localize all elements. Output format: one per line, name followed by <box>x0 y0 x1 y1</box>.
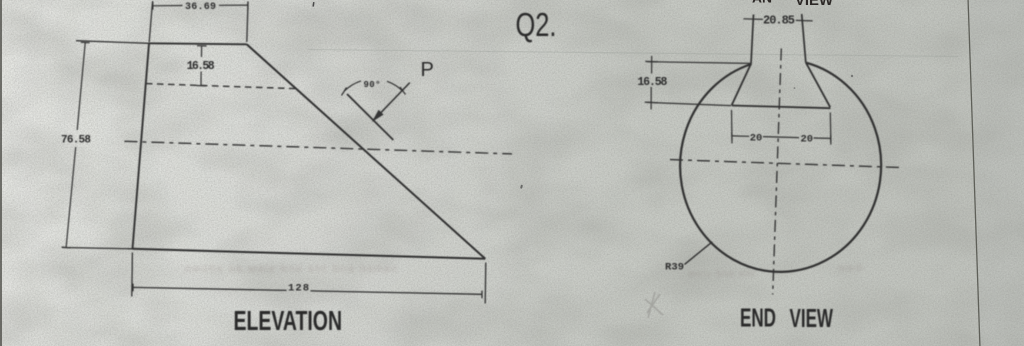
dimension 20-20 ticks <box>732 132 831 142</box>
svg-text:76.58: 76.58 <box>61 135 91 147</box>
extension down left for 128 <box>131 253 134 297</box>
90 degree arc right segment <box>387 81 403 91</box>
dimension 16.58 elevation line <box>200 47 203 86</box>
elevation left edge <box>133 44 150 249</box>
dimension 36.69 line <box>153 4 248 7</box>
dimension 16.58 end view ticks <box>645 61 659 102</box>
svg-text:90°: 90° <box>364 80 381 90</box>
end view horizontal centre line <box>670 160 903 168</box>
top edge extension left <box>76 41 149 44</box>
notch right slant <box>806 62 830 107</box>
svg-text:P: P <box>421 59 434 81</box>
faint ink bleed-through band under end view <box>687 263 864 280</box>
faint paper crease <box>308 50 958 57</box>
dimension 16.58 end view line <box>650 56 653 110</box>
dimension 20-20 line <box>732 136 831 139</box>
elevation slant edge <box>247 44 486 258</box>
P leader line <box>380 83 410 114</box>
end view vertical centre line <box>773 49 782 295</box>
notch left slant <box>732 64 751 106</box>
svg-text:weiv bne eht: weiv bne eht <box>687 269 756 280</box>
svg-text:VIEW: VIEW <box>795 0 834 9</box>
elevation bottom edge <box>133 249 486 259</box>
R39 leader <box>685 242 713 265</box>
dashed line (top plane) <box>146 84 295 89</box>
P leader arrowhead <box>372 110 384 122</box>
left photo edge dark line <box>0 0 2 346</box>
elevation top edge <box>149 43 247 44</box>
page edge line <box>968 0 980 346</box>
circle body (with notch gap at top) <box>680 63 881 272</box>
small specks <box>312 2 853 189</box>
dimension 76.58 line <box>66 43 85 248</box>
right extension up for 36.69 <box>247 2 248 42</box>
bottom edge extension left <box>62 248 133 249</box>
notch right vertical <box>802 14 806 62</box>
svg-text:VIEW: VIEW <box>790 303 834 333</box>
svg-text:20: 20 <box>750 132 763 144</box>
extension down left 20 <box>731 110 734 143</box>
svg-text:36.69: 36.69 <box>185 2 216 13</box>
svg-text:Q2.: Q2. <box>516 6 557 43</box>
svg-text:128: 128 <box>288 283 309 295</box>
svg-text:16.58: 16.58 <box>187 60 215 73</box>
svg-text:ELEVATION: ELEVATION <box>234 305 343 336</box>
page right edge darker strip <box>968 0 1024 346</box>
svg-text:AN: AN <box>752 0 772 6</box>
svg-text:R39: R39 <box>665 262 684 274</box>
cutting plane P short line <box>347 94 393 140</box>
dimension 20.85 line <box>743 19 812 21</box>
dimension 76.58 ticks <box>62 42 90 248</box>
extension down right 20 <box>829 113 832 145</box>
cut-off heading remnants at top edge <box>752 0 834 9</box>
faint ink bleed-through band under elevation <box>185 263 398 275</box>
elevation centre line dash-dot <box>124 141 512 154</box>
dimension 128 ticks <box>133 284 482 299</box>
svg-text:nwohs sa weiv bne eht bna noit: nwohs sa weiv bne eht bna noitav <box>185 263 398 275</box>
extension line bottom 16.58 <box>647 102 731 105</box>
dimension 36.69 end ticks <box>153 1 248 9</box>
svg-text:16.58: 16.58 <box>637 76 667 89</box>
90 degree arc left segment <box>344 81 361 91</box>
extension down right for 128 <box>484 263 487 304</box>
svg-text:END: END <box>740 303 776 333</box>
extension line top 16.58 <box>647 62 751 64</box>
arc end ticks <box>342 87 406 96</box>
notch bottom <box>732 106 831 109</box>
left edge extension up <box>149 1 152 42</box>
dimension 16.58 elevation ticks <box>196 46 206 86</box>
pencil scribble <box>645 292 663 318</box>
svg-text:20.85: 20.85 <box>763 14 795 28</box>
svg-text:20: 20 <box>801 134 814 146</box>
svg-text:warb: warb <box>837 263 864 274</box>
dimension 128 line <box>133 287 482 294</box>
notch left vertical <box>751 15 754 64</box>
